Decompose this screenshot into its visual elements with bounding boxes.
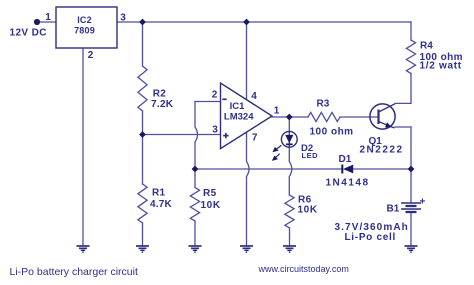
svg-text:R5: R5 <box>203 188 217 199</box>
svg-text:100 ohm: 100 ohm <box>310 127 354 138</box>
svg-text:Li-Po cell: Li-Po cell <box>345 232 396 243</box>
svg-text:1: 1 <box>45 12 51 23</box>
svg-text:7.2K: 7.2K <box>151 99 174 110</box>
svg-text:1/2 watt: 1/2 watt <box>420 61 462 72</box>
svg-text:1: 1 <box>274 106 280 117</box>
svg-text:3: 3 <box>120 13 126 24</box>
svg-text:Li-Po battery charger circuit: Li-Po battery charger circuit <box>10 266 138 278</box>
svg-text:IC2: IC2 <box>77 15 92 25</box>
svg-text:10K: 10K <box>201 200 221 211</box>
svg-text:www.circuitstoday.com: www.circuitstoday.com <box>258 264 349 274</box>
svg-text:2: 2 <box>88 50 94 61</box>
svg-text:R2: R2 <box>153 89 167 100</box>
svg-text:7809: 7809 <box>74 26 95 36</box>
svg-text:2: 2 <box>212 90 218 101</box>
svg-text:10K: 10K <box>298 205 318 216</box>
svg-text:IC1: IC1 <box>230 101 246 112</box>
svg-text:D1: D1 <box>339 154 352 165</box>
svg-text:12V DC: 12V DC <box>10 28 47 39</box>
svg-text:7: 7 <box>252 133 258 144</box>
svg-text:R4: R4 <box>420 41 433 52</box>
svg-text:LM324: LM324 <box>224 112 254 123</box>
svg-text:B1: B1 <box>387 204 400 215</box>
svg-text:R3: R3 <box>317 99 330 110</box>
svg-text:3: 3 <box>212 125 218 136</box>
svg-text:2N2222: 2N2222 <box>360 145 404 156</box>
svg-text:R1: R1 <box>152 188 166 199</box>
svg-text:4.7K: 4.7K <box>150 199 173 210</box>
svg-text:1N4148: 1N4148 <box>326 178 370 189</box>
svg-text:+: + <box>420 197 426 208</box>
svg-text:4: 4 <box>251 91 257 102</box>
svg-text:LED: LED <box>302 151 319 160</box>
